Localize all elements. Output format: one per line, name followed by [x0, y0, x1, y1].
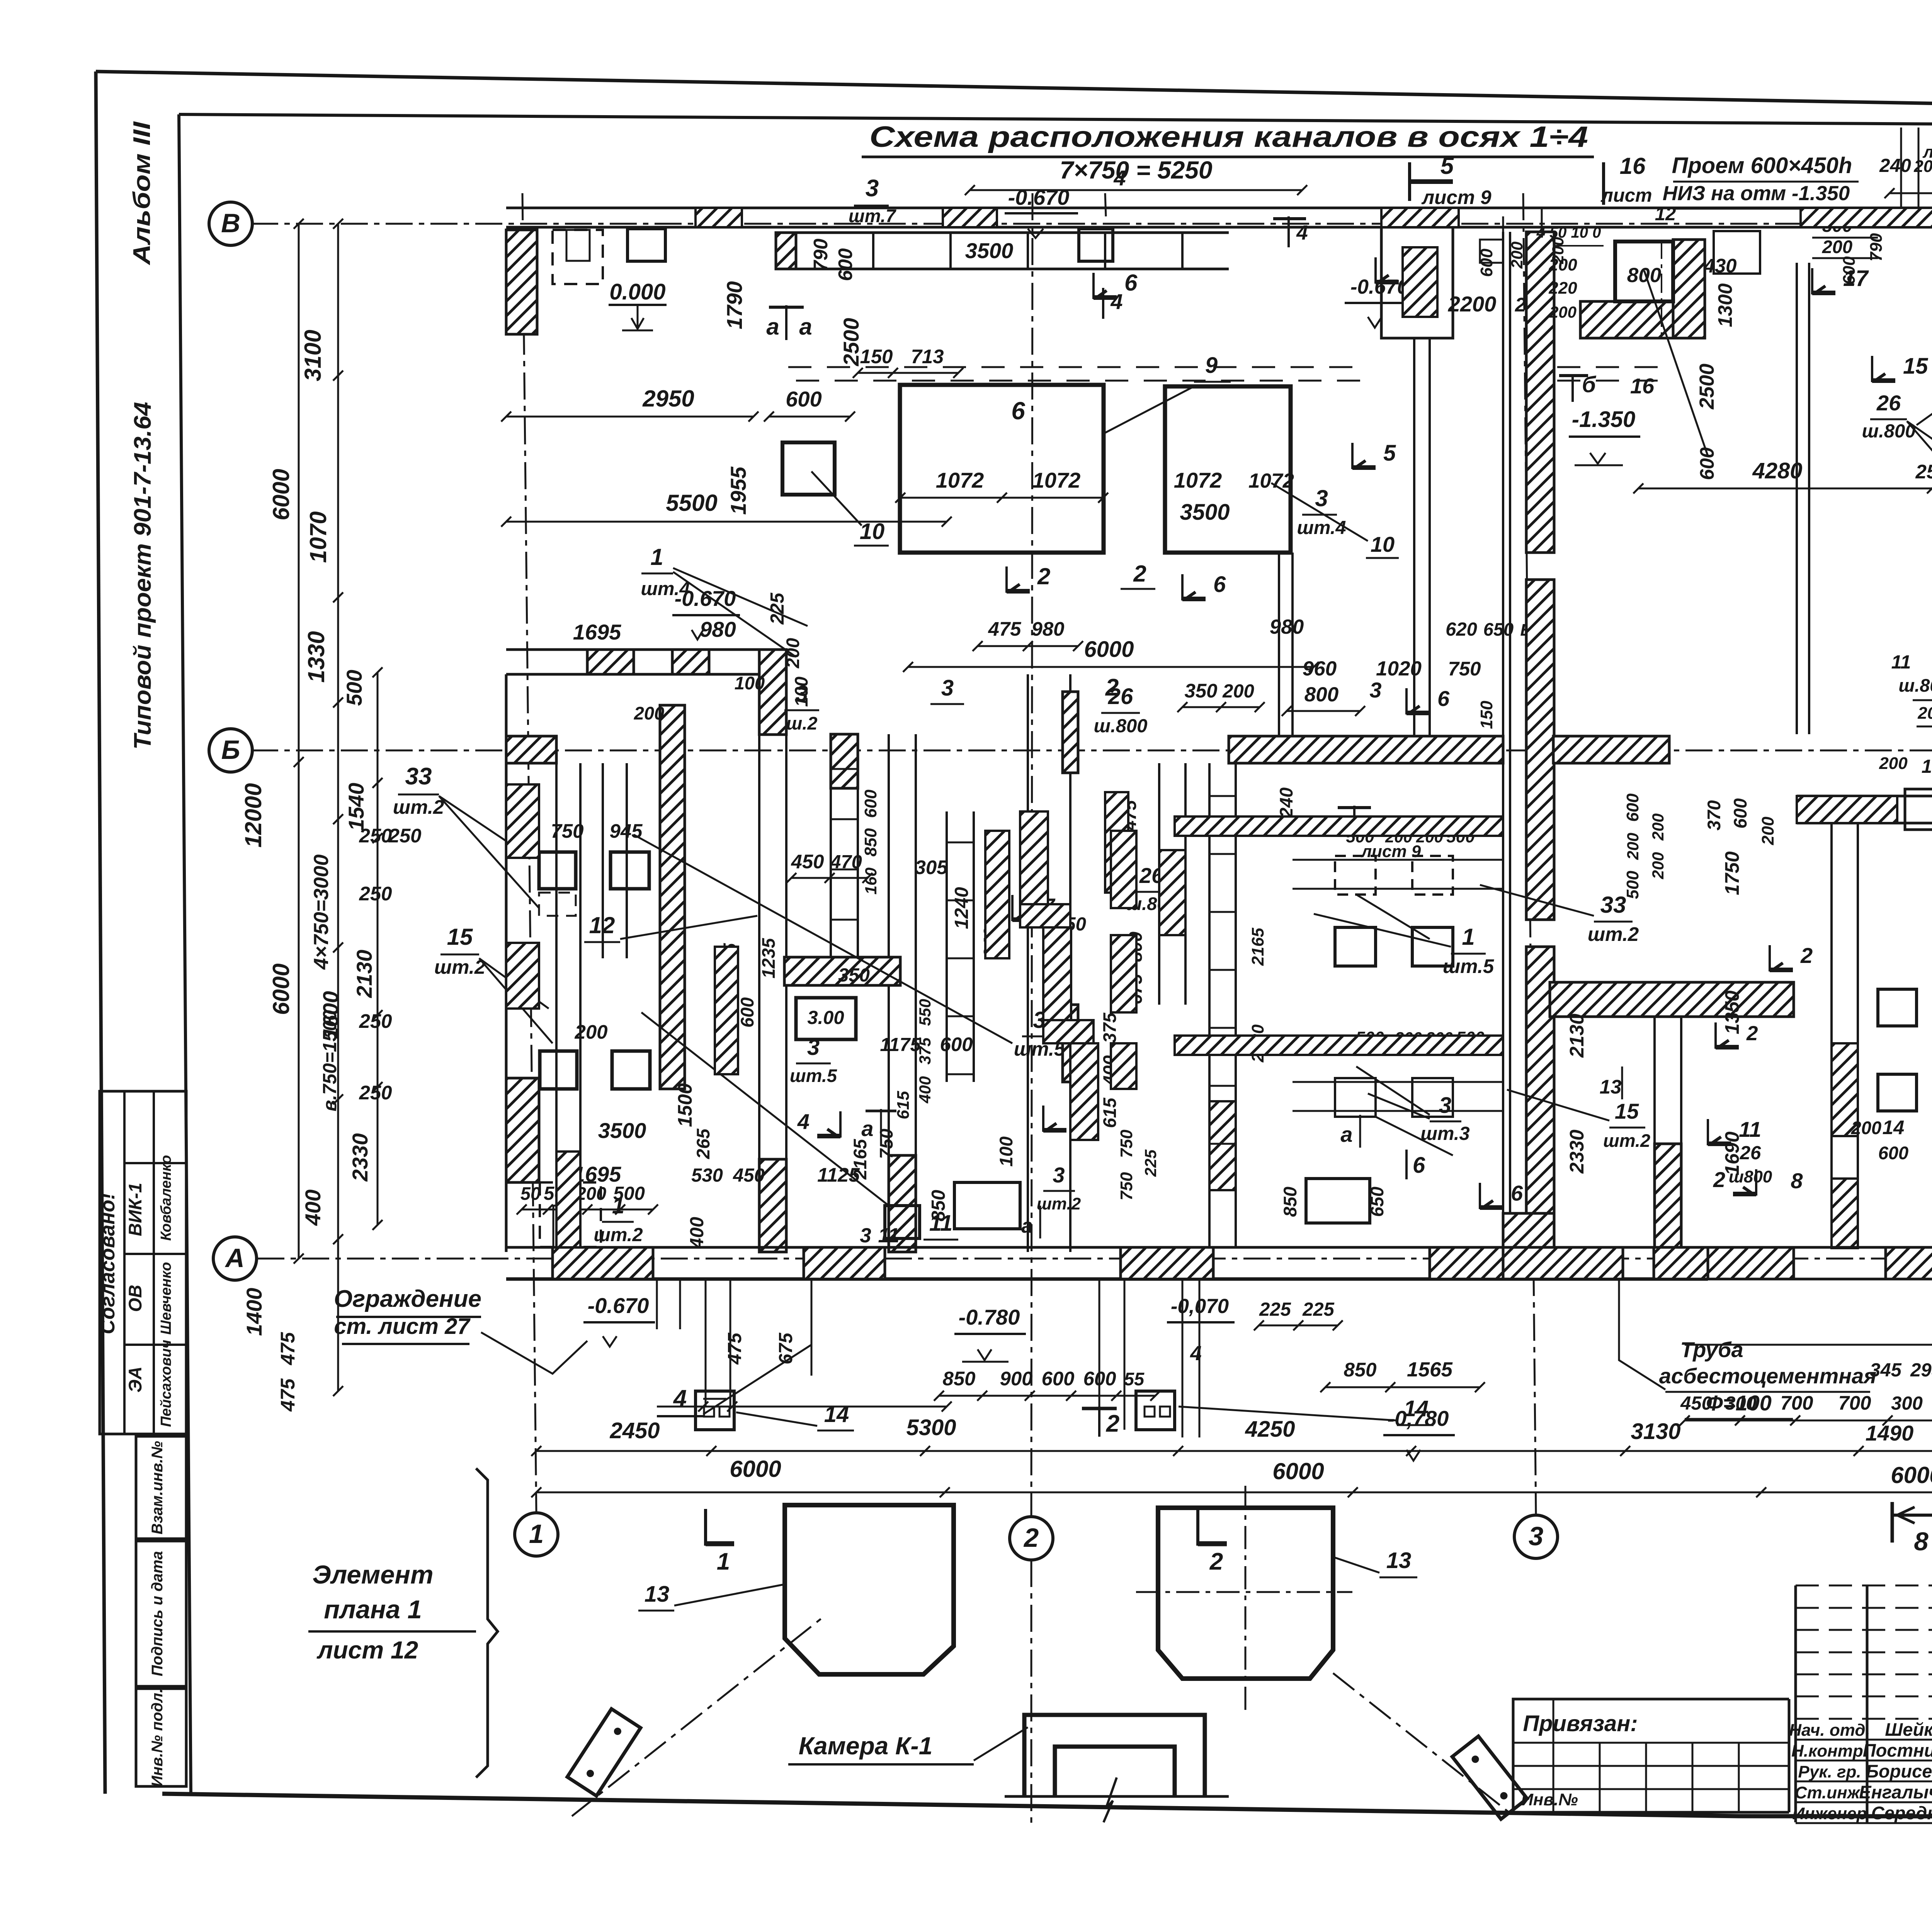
svg-text:4280: 4280 — [1752, 458, 1802, 483]
stub lines below wall — [657, 1279, 952, 1412]
label 3 sh2 — [784, 681, 819, 733]
stair wall top — [1381, 227, 1453, 338]
plan top wall inner line — [506, 226, 1932, 229]
left wall line lower — [505, 674, 508, 1252]
svg-text:2: 2 — [1037, 563, 1050, 589]
svg-text:620: 620 — [1446, 619, 1477, 640]
svg-text:615: 615 — [1099, 1097, 1120, 1128]
axis В — [209, 202, 252, 245]
svg-text:6000: 6000 — [1891, 1462, 1932, 1488]
dim 430 pocket — [1703, 255, 1736, 277]
fence label — [334, 1286, 481, 1344]
plan bottom wall bot line — [506, 1277, 1708, 1281]
element brace — [476, 1468, 498, 1778]
svg-text:Шейко: Шейко — [1885, 1719, 1932, 1740]
svg-text:1072: 1072 — [1174, 468, 1222, 492]
svg-text:800: 800 — [1304, 683, 1338, 706]
svg-text:3.00: 3.00 — [807, 1007, 844, 1028]
section flag 2 bot2 — [1198, 1509, 1227, 1575]
dim 750 945 — [551, 820, 643, 842]
dim 50 500 200 500 — [517, 1183, 658, 1214]
axis line 3 — [1523, 193, 1536, 1515]
dim 800 c — [1282, 683, 1365, 716]
svg-text:5: 5 — [1440, 153, 1454, 179]
svg-text:1: 1 — [717, 1548, 730, 1575]
label 2 flag c — [1007, 563, 1050, 593]
room A — [900, 385, 1104, 553]
dim 225 rot — [767, 592, 788, 625]
svg-text:2: 2 — [1713, 1167, 1725, 1192]
label 3 sht4 — [1297, 485, 1346, 538]
dim 2200 200 — [1448, 292, 1526, 316]
svg-text:12000: 12000 — [240, 783, 266, 848]
flag 4 topB — [1273, 216, 1308, 247]
axis А — [213, 1237, 257, 1280]
svg-text:2: 2 — [1746, 1022, 1758, 1045]
flag 6 room — [1094, 270, 1138, 299]
elevation -0.780 bot — [954, 1305, 1026, 1362]
svg-text:600: 600 — [834, 248, 856, 281]
channel left a — [556, 763, 580, 1247]
axis line Б — [251, 750, 1932, 752]
svg-text:лист 12: лист 12 — [316, 1636, 418, 1664]
dim 790 rot — [810, 238, 832, 271]
svg-text:3130: 3130 — [1631, 1419, 1680, 1444]
dim 2950 — [501, 386, 759, 422]
pad L3 — [540, 1051, 577, 1089]
label 26 sh800 c — [1094, 684, 1148, 737]
svg-text:плана 1: плана 1 — [324, 1595, 422, 1624]
A wall right extension — [1794, 1247, 1932, 1279]
svg-text:шт.2: шт.2 — [1037, 1194, 1081, 1213]
svg-text:Середняк: Середняк — [1871, 1803, 1932, 1823]
label 11 c — [923, 1211, 958, 1240]
svg-text:13: 13 — [1600, 1076, 1622, 1098]
transformer axis line — [1685, 1344, 1932, 1346]
section 16 list — [1600, 153, 1652, 206]
label b mid — [1716, 1022, 1758, 1049]
spine cap bottom — [1503, 1213, 1554, 1247]
dim text 500 — [342, 670, 366, 706]
svg-text:240: 240 — [1879, 155, 1911, 176]
svg-text:14: 14 — [1404, 1396, 1429, 1421]
svg-text:345: 345 — [1870, 1360, 1902, 1381]
dim row bottom right — [1680, 1392, 1932, 1414]
svg-text:6000: 6000 — [1084, 637, 1134, 662]
dim 1175 600 — [880, 1033, 973, 1055]
dim 4280 — [1633, 458, 1932, 493]
dashdot mid v — [1661, 240, 1662, 340]
pad channel lines bot — [1293, 1082, 1503, 1111]
flag b r — [1559, 372, 1597, 402]
margin box vzam — [136, 1436, 186, 1539]
svg-text:600: 600 — [786, 387, 821, 411]
svg-text:300: 300 — [1725, 1393, 1757, 1414]
margin approval table — [96, 1091, 186, 1434]
dim 3500 strip — [965, 238, 1014, 263]
svg-text:600: 600 — [737, 997, 757, 1027]
svg-text:2450: 2450 — [609, 1418, 660, 1443]
svg-text:14: 14 — [1883, 1116, 1905, 1138]
axis line 1 — [522, 193, 536, 1513]
apron verticals mid — [1099, 1279, 1199, 1437]
svg-text:-1.350: -1.350 — [1572, 407, 1635, 432]
svg-text:а: а — [861, 1116, 873, 1141]
svg-text:4: 4 — [1110, 289, 1122, 314]
dim 100 rot c — [996, 1136, 1016, 1167]
svg-text:2: 2 — [1515, 294, 1526, 316]
svg-text:26: 26 — [1740, 1143, 1761, 1163]
ladder rungs channel x2150 — [831, 769, 858, 920]
svg-text:шт.7: шт.7 — [849, 206, 896, 226]
svg-text:530: 530 — [691, 1165, 723, 1186]
svg-text:700: 700 — [1838, 1392, 1871, 1414]
dim 2330 rot c — [1566, 1129, 1588, 1174]
svg-text:7×750 = 5250: 7×750 = 5250 — [1060, 156, 1212, 184]
dim 600 rot r — [1696, 447, 1718, 480]
svg-text:1175: 1175 — [880, 1034, 921, 1055]
svg-text:6: 6 — [1413, 1153, 1425, 1178]
svg-text:лист 9: лист 9 — [1361, 842, 1421, 861]
rot dims c3 — [1117, 1129, 1160, 1201]
svg-text:1330: 1330 — [303, 631, 329, 682]
dim 250 r — [1915, 461, 1932, 483]
trapezoid sump 1 — [785, 1505, 954, 1674]
plan top wall outer line — [506, 207, 1932, 209]
rot dims c4 — [1248, 928, 1267, 1063]
svg-text:6000: 6000 — [268, 963, 294, 1015]
svg-text:6000: 6000 — [730, 1456, 781, 1482]
dim text 250 a — [359, 825, 392, 847]
flag 2 bot — [1082, 1407, 1119, 1437]
trap2 crosslines — [1136, 1486, 1352, 1712]
svg-text:160: 160 — [862, 867, 880, 895]
svg-text:200: 200 — [1549, 237, 1567, 264]
label 13 trap1 — [638, 1582, 785, 1611]
tilted plate right — [1452, 1736, 1527, 1819]
mid v channel — [1655, 1017, 1681, 1247]
svg-text:600: 600 — [1623, 793, 1642, 822]
camera shape — [1005, 1715, 1229, 1822]
svg-text:-0.670: -0.670 — [1008, 185, 1070, 209]
channel right mid — [1832, 823, 1858, 1248]
dim 750 rot c — [876, 1129, 896, 1159]
svg-text:лист 9: лист 9 — [1421, 186, 1492, 208]
dim 100 band1 — [735, 673, 765, 693]
flag 2 right mid b — [1713, 1167, 1756, 1196]
svg-text:450: 450 — [791, 850, 824, 873]
svg-text:ш800: ш800 — [1729, 1167, 1772, 1186]
dim text 250 c — [359, 883, 392, 905]
label 1 sht2 l — [594, 1193, 643, 1245]
signature block — [1789, 1585, 1932, 1823]
leader 10 roomB — [1271, 483, 1399, 558]
svg-text:250: 250 — [359, 883, 392, 905]
svg-text:16: 16 — [1620, 153, 1646, 179]
flag 3 sht3 — [1356, 1067, 1470, 1144]
mid bottom bar b — [1654, 1247, 1794, 1279]
dim 1235 rot — [758, 938, 779, 978]
svg-text:2330: 2330 — [1566, 1129, 1588, 1174]
bottom wall hatch a — [553, 1247, 653, 1279]
top wall square a — [628, 229, 665, 261]
label 1 sht5 — [1314, 914, 1494, 977]
dim 1500 rot — [674, 1083, 696, 1127]
svg-text:а: а — [1340, 1122, 1352, 1146]
tilted plate left — [567, 1709, 641, 1796]
dim 265 rot — [693, 1128, 713, 1159]
dim 150 rot l — [0, 0, 0, 0]
label 14 600 200 — [1917, 702, 1932, 726]
svg-text:250: 250 — [359, 1010, 392, 1032]
inner frame top — [179, 114, 1932, 128]
svg-text:960: 960 — [1303, 657, 1337, 680]
dim text 250 d — [359, 1010, 392, 1032]
svg-text:200: 200 — [1851, 1118, 1881, 1138]
svg-text:713: 713 — [911, 345, 944, 367]
svg-text:450: 450 — [1680, 1393, 1712, 1414]
svg-text:шт.2: шт.2 — [1603, 1130, 1650, 1151]
svg-text:шт.2: шт.2 — [393, 796, 444, 818]
label 14 left — [736, 1402, 854, 1431]
label 13 c — [1600, 1067, 1622, 1099]
dim 530 450 — [691, 1165, 765, 1186]
svg-text:200: 200 — [1549, 303, 1577, 321]
svg-text:600: 600 — [1878, 1143, 1908, 1163]
mid pads dash — [1335, 856, 1453, 1117]
svg-text:3: 3 — [1529, 1521, 1543, 1551]
svg-text:ш.800: ш.800 — [1094, 716, 1148, 737]
svg-text:4: 4 — [1296, 221, 1308, 244]
dim 960 mid — [1303, 657, 1337, 680]
svg-text:Привязан:: Привязан: — [1523, 1711, 1638, 1736]
dim 600 rot l — [737, 997, 757, 1027]
svg-text:3: 3 — [796, 681, 808, 706]
bottom wall hatch e — [1708, 1247, 1794, 1279]
tall hatched wall V1 — [660, 705, 685, 1089]
privyazan extra — [1553, 1699, 1739, 1812]
margin text album — [129, 121, 155, 265]
svg-text:2: 2 — [1133, 561, 1146, 587]
svg-text:225: 225 — [1302, 1299, 1335, 1320]
pad L1 — [539, 852, 576, 889]
label 10 r — [1879, 754, 1932, 777]
svg-text:12: 12 — [1655, 204, 1676, 225]
wall B right hatch a — [1797, 796, 1897, 823]
svg-text:Енгалычева: Енгалычева — [1859, 1782, 1932, 1802]
svg-text:600: 600 — [1696, 447, 1718, 480]
svg-text:15: 15 — [1903, 354, 1928, 379]
svg-text:900: 900 — [1000, 1368, 1032, 1390]
svg-text:1235: 1235 — [758, 938, 779, 978]
dim text 250 e — [359, 1082, 392, 1104]
svg-text:-0.670: -0.670 — [588, 1293, 649, 1318]
svg-text:33: 33 — [1600, 892, 1626, 918]
svg-text:225: 225 — [1141, 1149, 1160, 1177]
svg-text:шт.5: шт.5 — [790, 1065, 837, 1086]
svg-text:200: 200 — [1879, 754, 1908, 773]
small sq bottom c — [885, 1206, 920, 1238]
svg-text:шт.2: шт.2 — [1588, 923, 1639, 945]
svg-text:3: 3 — [1369, 678, 1381, 702]
dim 1240 rot — [951, 887, 972, 929]
dim text 2330 — [348, 1133, 372, 1182]
channel V3 — [831, 734, 858, 958]
svg-text:4×750=3000: 4×750=3000 — [310, 854, 333, 970]
inner frame left — [179, 114, 191, 1795]
svg-text:850: 850 — [1280, 1187, 1300, 1217]
svg-text:НИЗ на отм -1.350: НИЗ на отм -1.350 — [1663, 182, 1850, 205]
diag dashdot left — [572, 1617, 823, 1816]
svg-text:15: 15 — [1615, 1099, 1639, 1123]
dim 150 713 — [853, 345, 963, 378]
axis 2 — [1010, 1517, 1053, 1560]
svg-text:980: 980 — [1031, 618, 1064, 640]
svg-text:В: В — [221, 208, 240, 238]
svg-text:1695: 1695 — [573, 620, 621, 644]
pocket hatch right — [1673, 240, 1705, 338]
channel axis2 hatch b — [1063, 1005, 1078, 1082]
dim 1125 — [817, 1164, 860, 1186]
marker box 14 right — [1136, 1391, 1175, 1430]
svg-text:200: 200 — [1624, 833, 1642, 860]
label 12 l — [584, 912, 757, 942]
svg-text:375: 375 — [916, 1037, 934, 1065]
top wall hatch seg b — [696, 208, 742, 227]
svg-text:3: 3 — [860, 1224, 871, 1247]
svg-text:33: 33 — [405, 763, 432, 790]
top wall dashed pit — [553, 230, 603, 284]
dashed pit bottom left — [540, 1182, 601, 1247]
svg-text:ст. лист 27: ст. лист 27 — [334, 1314, 471, 1339]
svg-text:850: 850 — [942, 1368, 975, 1390]
ladder rungs channel x3130 — [1209, 796, 1236, 1144]
svg-text:ВИК-1: ВИК-1 — [125, 1183, 145, 1236]
svg-text:асбестоцементная: асбестоцементная — [1659, 1364, 1877, 1388]
channel x3660 — [1414, 338, 1430, 736]
svg-text:2130: 2130 — [1566, 1014, 1588, 1058]
dim 3500 left — [598, 1118, 646, 1143]
plan bottom wall top line — [506, 1246, 1708, 1249]
flag 4 c1 — [797, 1109, 840, 1138]
dim 1955 rot — [726, 466, 750, 515]
svg-text:5300: 5300 — [906, 1415, 956, 1440]
top right tick lines — [1901, 128, 1932, 209]
svg-text:ОВ: ОВ — [125, 1285, 145, 1312]
room B — [1165, 386, 1291, 553]
svg-text:ш.800: ш.800 — [1898, 675, 1932, 696]
axis line В — [251, 223, 1932, 225]
svg-text:1565: 1565 — [1407, 1358, 1453, 1381]
svg-text:615: 615 — [894, 1091, 913, 1119]
label 6 big — [1011, 397, 1025, 425]
svg-text:6000: 6000 — [268, 469, 294, 520]
dim 5500 — [501, 490, 952, 527]
dim 980 mid — [1270, 616, 1304, 638]
dim 1790 rot — [722, 281, 747, 330]
dim row top right — [1879, 153, 1932, 178]
dim 715 rot — [719, 943, 740, 973]
svg-text:шт.4: шт.4 — [641, 578, 690, 599]
dim 1072 1072 b — [1174, 468, 1294, 492]
svg-text:8: 8 — [1914, 1527, 1929, 1556]
elevation -0.670 b1 — [672, 586, 740, 640]
svg-text:3500: 3500 — [1180, 500, 1230, 525]
svg-text:1070: 1070 — [305, 511, 331, 563]
svg-text:6: 6 — [1124, 270, 1138, 296]
svg-text:Инженер: Инженер — [1792, 1804, 1867, 1823]
svg-text:4250: 4250 — [1245, 1417, 1295, 1442]
svg-text:375: 375 — [1099, 1012, 1120, 1043]
diag dashdot right — [1333, 1673, 1509, 1812]
axis2 below circle — [1031, 1560, 1032, 1828]
svg-text:305: 305 — [915, 856, 948, 878]
svg-text:1400: 1400 — [242, 1288, 266, 1336]
dim text 1400 — [242, 1288, 266, 1336]
margin box podpis — [136, 1541, 186, 1686]
label 3 sht2 c — [1037, 1163, 1081, 1213]
svg-text:1540: 1540 — [344, 783, 368, 831]
dim chain left a — [294, 219, 304, 1264]
svg-text:5500: 5500 — [666, 490, 717, 516]
dim text 1600 — [318, 991, 343, 1039]
svg-text:15: 15 — [447, 924, 473, 950]
dim text 1070 — [305, 511, 331, 563]
text proem 600 — [1663, 153, 1859, 209]
svg-text:250: 250 — [359, 825, 392, 847]
label 1 sht4 — [641, 544, 808, 657]
dim 980 band1 — [700, 617, 736, 641]
leader 26 r — [1907, 421, 1932, 553]
dash box top mid — [1480, 231, 1760, 274]
svg-text:-0.780: -0.780 — [959, 1305, 1020, 1329]
svg-text:50: 50 — [520, 1183, 541, 1204]
flag 5 roomB — [1352, 441, 1396, 469]
dim 200 220 rot small — [1548, 255, 1577, 321]
channel x3000 — [1159, 763, 1185, 1005]
label 2 center — [1105, 674, 1119, 701]
dim 100 b1 — [791, 677, 811, 707]
pad L4 — [612, 1051, 650, 1089]
axis line А — [257, 1258, 1932, 1260]
svg-text:13: 13 — [645, 1582, 670, 1607]
rot dims c1 — [861, 789, 880, 895]
svg-text:200: 200 — [634, 703, 664, 723]
svg-text:225: 225 — [767, 592, 788, 625]
channel axis2 line b — [1069, 674, 1071, 1252]
rot col 375 400 — [1099, 1012, 1120, 1128]
svg-text:400: 400 — [687, 1217, 707, 1249]
svg-text:3100: 3100 — [300, 330, 326, 381]
dim 475 675 rot — [724, 1332, 796, 1365]
leader 10 S1 — [811, 471, 889, 546]
svg-text:200: 200 — [1822, 236, 1852, 257]
flag 4 top — [1105, 166, 1126, 216]
svg-text:Элемент: Элемент — [312, 1560, 433, 1589]
svg-text:шт.4: шт.4 — [1297, 517, 1346, 538]
dim 7x750 — [1060, 156, 1212, 184]
pads right mid — [1878, 989, 1917, 1111]
svg-text:600: 600 — [940, 1033, 973, 1055]
leader 15 — [479, 958, 553, 1043]
svg-text:750: 750 — [1117, 1172, 1136, 1201]
dim text 33 sht2 — [393, 763, 444, 818]
svg-text:300: 300 — [1891, 1393, 1923, 1414]
leader 33 — [439, 796, 539, 908]
roomB right wall cont — [1279, 553, 1293, 736]
dim row 850-900-600 — [934, 1368, 1160, 1401]
hatch bar c7 — [715, 947, 738, 1074]
